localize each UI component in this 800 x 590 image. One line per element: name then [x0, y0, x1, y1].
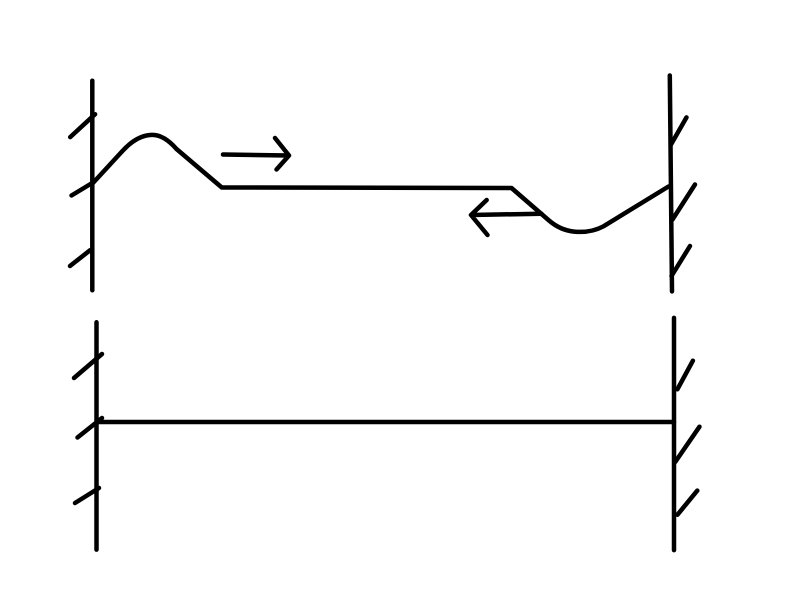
top-right wall [670, 76, 672, 292]
string with left pulse (up) and right pulse (down) [93, 135, 669, 232]
top-left wall hatch 3 [70, 250, 90, 266]
top-left wall hatch 2 [72, 183, 94, 196]
flat string at rest [97, 420, 675, 425]
left-moving pulse arrow [471, 200, 542, 235]
bottom-left wall hatch 3 [75, 488, 99, 503]
top-right wall hatch 1 [671, 117, 687, 144]
bottom-right wall [672, 318, 677, 550]
top-left wall hatch 1 [70, 114, 95, 137]
bottom-right wall hatch 2 [675, 427, 699, 462]
bottom-right wall hatch 3 [677, 491, 697, 515]
bottom-left wall hatch 1 [74, 354, 102, 378]
top-left wall [90, 81, 95, 291]
top-right wall hatch 3 [672, 246, 691, 276]
bottom-left wall [94, 322, 99, 549]
bottom-right wall hatch 1 [677, 361, 693, 390]
top-right wall hatch 2 [673, 185, 696, 220]
bottom-left wall hatch 2 [78, 418, 103, 438]
right-moving pulse arrow [223, 138, 289, 170]
